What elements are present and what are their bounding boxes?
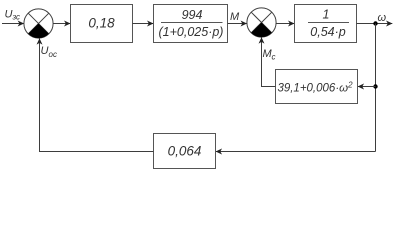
wire input arrow to summer 1 bbox=[2, 23, 24, 25]
svg-text:ос: ос bbox=[49, 50, 57, 59]
svg-text:U: U bbox=[5, 9, 13, 21]
block W1 994/(1+0,025p) bbox=[154, 5, 228, 43]
block K1 0,18 bbox=[71, 5, 133, 43]
svg-text:M: M bbox=[230, 11, 240, 23]
svg-text:ω: ω bbox=[378, 12, 387, 24]
block K2 0,064 bbox=[154, 134, 216, 169]
wire block1 to block2 bbox=[133, 23, 154, 25]
summing junction S1 bbox=[24, 9, 53, 38]
node junction dot at Mc branch bbox=[373, 84, 377, 88]
svg-text:0,18: 0,18 bbox=[88, 16, 115, 31]
block F(w) 39,1+0,006w^2 bbox=[276, 70, 358, 104]
wire branch into block4 bbox=[358, 86, 376, 88]
wire summer1 to block1 bbox=[53, 23, 70, 25]
svg-text:(1+0,025·p): (1+0,025·p) bbox=[159, 25, 224, 39]
svg-text:0,54·p: 0,54·p bbox=[310, 25, 345, 39]
svg-text:994: 994 bbox=[182, 8, 203, 22]
node junction dot at output bbox=[373, 21, 377, 25]
wire bottom feedback right segment bbox=[216, 151, 376, 153]
svg-text:с: с bbox=[272, 53, 276, 62]
svg-text:U: U bbox=[41, 45, 49, 57]
wire block3 to output omega bbox=[357, 23, 393, 25]
svg-text:1: 1 bbox=[323, 8, 330, 22]
wire bottom feedback left segment to summer1 bbox=[40, 38, 154, 151]
svg-text:зс: зс bbox=[12, 13, 21, 22]
block W2 1/(0,54p) bbox=[295, 5, 357, 43]
wire block4 output to summer2 bbox=[262, 37, 276, 86]
svg-text:39,1+0,006·ω2: 39,1+0,006·ω2 bbox=[277, 81, 353, 95]
svg-text:0,064: 0,064 bbox=[168, 144, 202, 159]
wire summer2 to block3 bbox=[276, 23, 294, 25]
wire vertical feedback line x=375 bbox=[375, 24, 377, 152]
summing junction S2 bbox=[247, 8, 276, 37]
wire block2 to summer2 bbox=[228, 23, 247, 25]
